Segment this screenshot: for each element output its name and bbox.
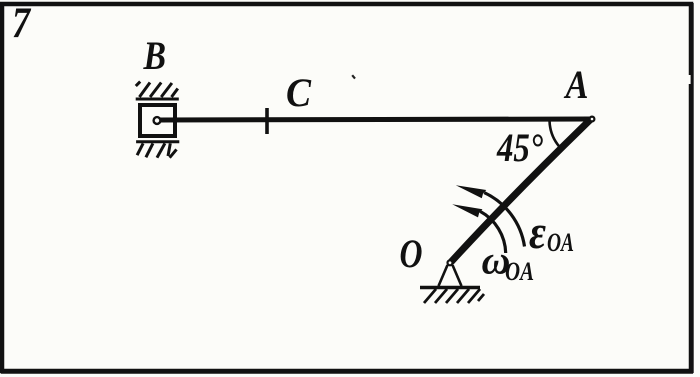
svg-text:OA: OA — [505, 257, 534, 286]
white notch in right border — [688, 75, 691, 84]
angle arc 45 deg at A — [550, 121, 563, 150]
svg-text:45°: 45° — [496, 125, 543, 170]
bar BCA — [158, 119, 590, 120]
svg-text:C: C — [286, 70, 312, 115]
svg-text:B: B — [143, 33, 166, 78]
ground hatch at O — [424, 289, 484, 303]
arrowhead epsilon — [456, 185, 487, 198]
slider guide bottom hatch at B — [136, 142, 179, 158]
pin circle at B — [154, 117, 161, 124]
arrow arc epsilon (outer) — [484, 193, 524, 247]
ground line at O — [420, 286, 480, 290]
svg-text:OA: OA — [547, 228, 574, 257]
arrow arc omega (inner) — [480, 211, 506, 253]
svg-text:ε: ε — [529, 206, 546, 259]
svg-text:O: O — [400, 231, 423, 276]
scan speck near C — [352, 75, 355, 78]
pin circle at O — [448, 260, 453, 265]
pin support triangle at O — [439, 265, 462, 286]
arrowhead omega — [452, 204, 482, 217]
slider guide top hatch at B — [136, 82, 179, 99]
slider block B — [140, 105, 175, 136]
svg-text:7: 7 — [12, 0, 31, 47]
link OA — [451, 119, 591, 262]
pin circle at A — [590, 117, 595, 122]
svg-text:A: A — [563, 62, 589, 107]
tick mark at C — [265, 108, 269, 134]
